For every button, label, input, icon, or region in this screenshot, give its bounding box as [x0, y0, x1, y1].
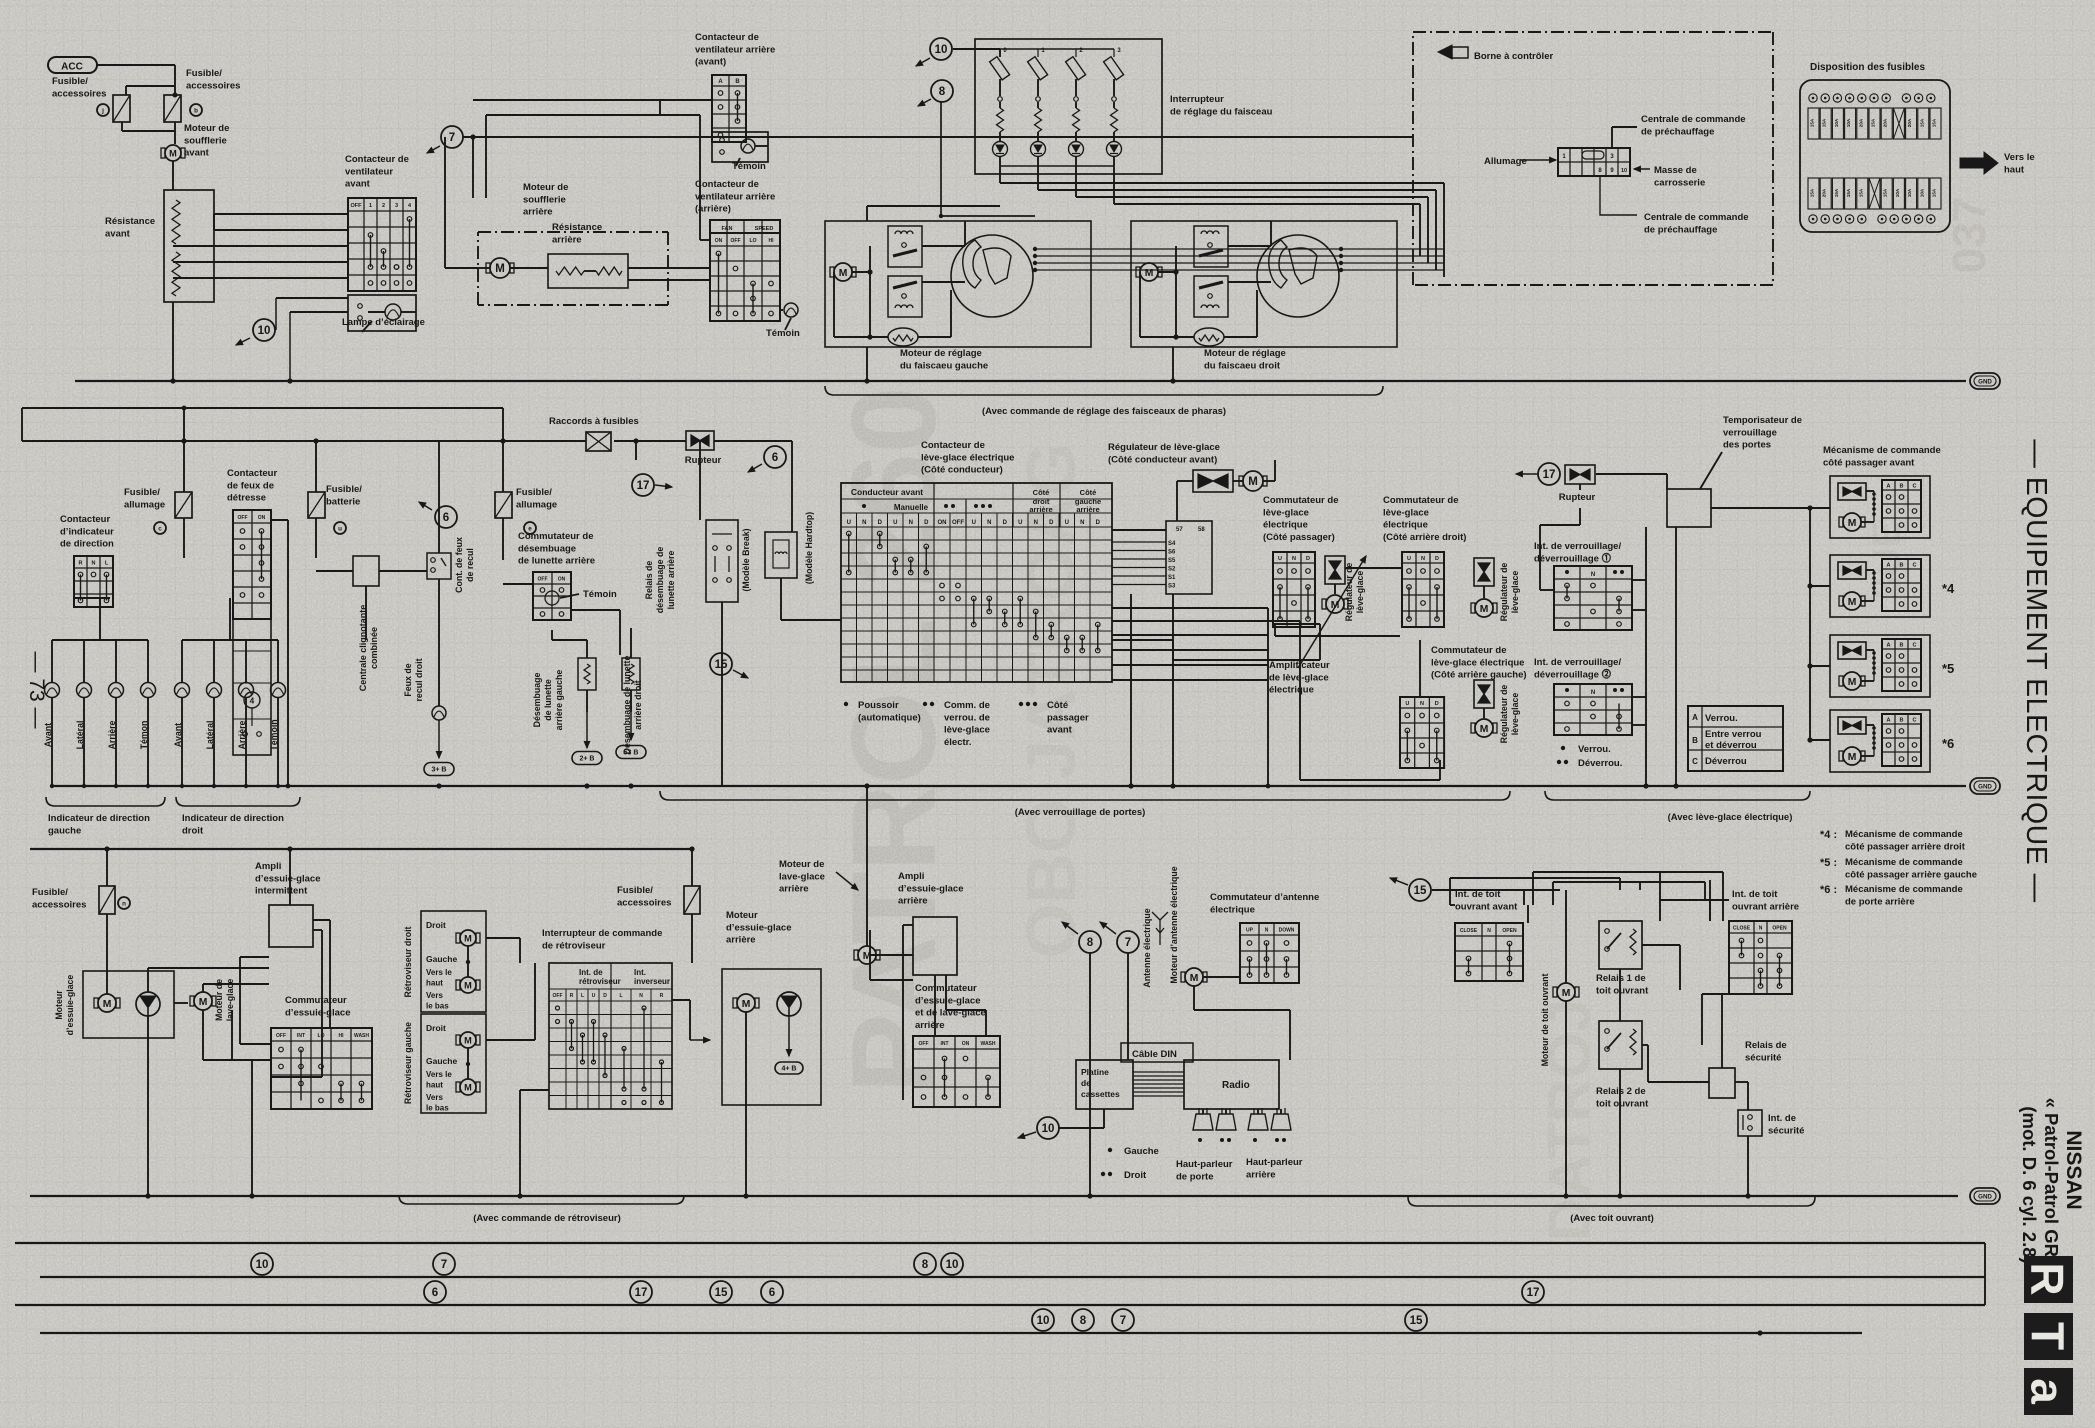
svg-text:T: T: [2021, 1322, 2073, 1350]
svg-text:a: a: [2021, 1378, 2073, 1404]
svg-text:R: R: [2021, 1262, 2073, 1295]
